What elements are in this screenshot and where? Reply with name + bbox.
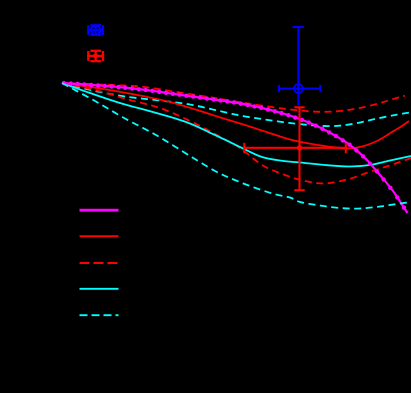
legend line red dashed [80,262,119,264]
red dashed lower band curve [62,83,411,184]
blue data point with error bars [279,27,321,106]
red errorbar legend glyph [87,50,104,61]
legend line cyan solid [80,288,119,290]
red solid curve [62,83,409,148]
red data point with error bars [244,107,345,190]
cyan dashed lower band curve [62,83,411,209]
legend line magenta (central model) [80,209,119,212]
cyan solid curve [62,83,411,167]
magenta central curve with markers [62,81,408,213]
red dashed upper band curve [62,83,405,112]
blue errorbar legend glyph [87,25,104,36]
legend line red solid [80,235,119,237]
legend line cyan dashed [80,314,119,316]
cyan dashed upper band curve [62,83,411,126]
